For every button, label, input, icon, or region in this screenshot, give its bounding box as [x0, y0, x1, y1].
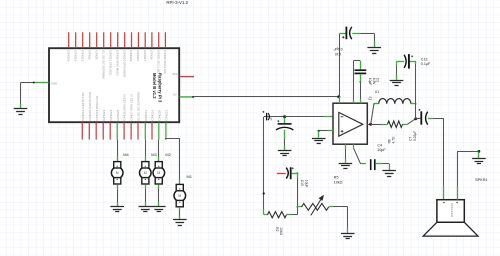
svg-text:GPIO14 UART0 TXD: GPIO14 UART0 TXD — [81, 92, 85, 121]
wire M1 to ground — [179, 207, 181, 219]
wire op-amp bottom pin gnd — [345, 144, 347, 163]
svg-text:10µF: 10µF — [377, 148, 386, 152]
svg-text:M: M — [178, 194, 181, 198]
svg-text:C10: C10 — [335, 52, 342, 56]
RPi pin 5V — [173, 93, 193, 97]
wire 5V net — [192, 96, 339, 98]
ground speaker — [472, 159, 486, 164]
junction input node — [283, 115, 286, 118]
svg-text:GPIO15 UART0 RXD: GPIO15 UART0 RXD — [88, 91, 92, 120]
wire op-amp bottom pin to C4 — [353, 144, 365, 164]
RPi top pin ID_SD I2C EEPROM — [101, 32, 105, 79]
label C15 10uF — [300, 180, 308, 188]
svg-text:3V3: 3V3 — [172, 72, 178, 76]
svg-text:R5: R5 — [334, 176, 339, 180]
RPi bottom pin GPIO18 PCM CLK — [95, 96, 99, 140]
svg-text:R2: R2 — [275, 227, 279, 231]
label L3 — [369, 96, 373, 100]
wire input node horizontal — [264, 116, 285, 118]
RPi bottom pin GPIO25 — [116, 109, 120, 139]
RPi bottom pin ID_SC I2C EEPROM — [137, 92, 141, 140]
wire RPi to M3 — [145, 140, 147, 162]
svg-text:M: M — [157, 171, 160, 175]
label R6 4.7ohm — [387, 136, 395, 143]
wire RPi to M2 — [158, 140, 160, 162]
ground M2 — [152, 207, 166, 212]
capacitor C7 — [416, 109, 433, 125]
svg-text:GPIO18 PCM CLK: GPIO18 PCM CLK — [95, 96, 99, 121]
ground C4 — [382, 171, 396, 177]
RPi bottom pin GPIO7 SPI0 CE1 N — [130, 94, 134, 139]
svg-text:GPIO21: GPIO21 — [165, 109, 169, 120]
capacitor C? input to ground — [276, 118, 293, 151]
RPi bottom pin GPIO14 UART0 TXD — [81, 92, 85, 140]
ground C10 — [367, 48, 381, 54]
svg-text:GPIO27: GPIO27 — [136, 50, 140, 61]
svg-text:GPIO5: GPIO5 — [94, 50, 98, 60]
wire op-amp output — [367, 124, 370, 126]
RPi bottom pin GPIO24 — [109, 109, 113, 139]
svg-text:M4: M4 — [123, 152, 129, 157]
svg-text:0.22µF: 0.22µF — [413, 131, 417, 141]
svg-text:C15: C15 — [300, 180, 304, 186]
svg-text:µF: µF — [269, 117, 273, 121]
motor M1 — [174, 184, 186, 206]
wire op-amp plus input to ground — [318, 130, 334, 138]
Raspberry Pi U2 body — [49, 48, 179, 122]
RPi top pin GPIO11 SPI0 SCK — [108, 32, 112, 75]
ground M3 — [139, 207, 153, 212]
RPi top pin GPIO13 — [80, 32, 84, 61]
svg-text:M: M — [116, 171, 119, 175]
resistor R6 — [371, 119, 416, 128]
ground op-amp pin — [339, 164, 353, 169]
svg-text:GPIO11 SPI0 SCK: GPIO11 SPI0 SCK — [108, 50, 112, 75]
svg-text:C12: C12 — [421, 57, 428, 61]
svg-text:10µF: 10µF — [368, 78, 372, 85]
svg-text:0.1µF: 0.1µF — [421, 62, 431, 66]
wire pot to ground — [333, 207, 348, 234]
svg-text:M1: M1 — [187, 174, 192, 179]
RPi bottom pin GPIO21 — [165, 109, 169, 139]
RPi top pin GPIO27 — [136, 32, 140, 61]
capacitor C4 — [371, 159, 390, 170]
wire 5V up to C10 — [339, 34, 346, 97]
svg-text:0.1µF: 0.1µF — [333, 47, 343, 51]
svg-text:ID_SC I2C EEPROM: ID_SC I2C EEPROM — [137, 92, 141, 121]
junction 5V node — [337, 95, 340, 98]
label C7 0.22uF — [409, 131, 417, 141]
svg-text:GPIO10 SPI0 MOSI: GPIO10 SPI0 MOSI — [122, 50, 126, 77]
RPi top pin GPIO5 — [94, 32, 98, 60]
wire RPi to M4 — [117, 140, 119, 162]
wire L3 right — [373, 103, 416, 105]
wire GND to ground — [21, 82, 35, 109]
RPi top pin GPIO6 — [87, 32, 91, 60]
junction Zobel node — [414, 117, 417, 120]
svg-text:M: M — [144, 171, 147, 175]
svg-text:GPIO24: GPIO24 — [109, 109, 113, 120]
wire C7 to speaker — [433, 118, 444, 199]
wire node up to C12 — [415, 61, 417, 119]
wire C12 to ground — [396, 61, 398, 80]
RPi bottom pin GPIO16 — [151, 109, 155, 139]
RPi pin 3V3 — [172, 72, 194, 77]
capacitor C10 — [342, 27, 374, 40]
speaker SPKR1 body — [437, 200, 464, 223]
potentiometer R5 — [297, 195, 333, 216]
wire M2 to ground — [158, 184, 160, 206]
wire down to ground — [478, 151, 480, 158]
svg-text:GPIO19: GPIO19 — [73, 50, 77, 61]
svg-text:RPI-3-V1.2: RPI-3-V1.2 — [166, 0, 188, 5]
ground input cap — [278, 151, 292, 156]
junction output node — [369, 123, 372, 126]
wire speaker right to ground — [457, 151, 479, 199]
wire M4 to ground — [117, 184, 119, 206]
svg-text:M2: M2 — [165, 152, 170, 157]
label R2 10k — [275, 227, 283, 235]
svg-text:GPIO13: GPIO13 — [80, 50, 84, 61]
capacitor C15 — [277, 167, 298, 179]
RPi bottom pin GPIO8 SPI0 CE0 N — [123, 94, 127, 139]
svg-text:5V: 5V — [173, 93, 177, 97]
wire C15 down to pot — [296, 172, 298, 214]
motor M2 — [153, 162, 165, 184]
ground op-amp plus — [312, 139, 326, 144]
RPi bottom pin GPIO15 UART0 RXD — [88, 91, 92, 139]
svg-text:GPIO9 SPI0 MISO: GPIO9 SPI0 MISO — [115, 50, 119, 76]
svg-text:M3: M3 — [151, 152, 156, 157]
svg-text:GPIO17: GPIO17 — [143, 50, 147, 61]
svg-text:L3: L3 — [369, 96, 373, 100]
motor M4 — [111, 162, 123, 184]
ground M4 — [110, 207, 124, 212]
junction on left net — [263, 192, 265, 194]
wire C10 to ground — [374, 34, 376, 48]
wire left vertical net — [263, 117, 265, 215]
RPi top pin GPIO17 — [143, 32, 147, 61]
ground RPi GND — [14, 109, 28, 115]
motor M3 — [140, 162, 152, 184]
RPi top pin GPIO22 — [129, 32, 133, 61]
capacitor C3 — [355, 61, 367, 103]
wire M3 to ground — [145, 184, 147, 206]
svg-text:U1: U1 — [375, 90, 379, 94]
svg-text:10µF: 10µF — [304, 180, 308, 188]
svg-text:GPIO16: GPIO16 — [151, 109, 155, 120]
resistor R2 — [264, 212, 298, 218]
svg-text:GPIO22: GPIO22 — [129, 50, 133, 61]
svg-text:GND: GND — [51, 81, 59, 85]
svg-text:GPIO8 SPI0 CE0 N: GPIO8 SPI0 CE0 N — [123, 94, 127, 120]
inductor L3 — [379, 99, 411, 104]
speaker cone — [423, 222, 478, 236]
RPi bottom pin GPIO20 — [157, 109, 161, 139]
RPi top pin GPIO9 SPI0 MISO — [115, 32, 119, 76]
svg-text:GPIO25: GPIO25 — [116, 109, 120, 120]
RPi title text — [152, 73, 162, 103]
ground M1 — [173, 220, 187, 226]
svg-text:SPEAKER: SPEAKER — [450, 203, 454, 218]
RPi top pin GPIO4 — [150, 32, 154, 60]
svg-text:GPIO7 SPI0 CE1 N: GPIO7 SPI0 CE1 N — [130, 94, 134, 120]
ground pot — [341, 234, 355, 239]
RPi bottom pin GPIO12 — [144, 109, 148, 139]
RPi top pin GPIO10 SPI0 MOSI — [122, 32, 126, 77]
wire RPi to M1 — [166, 139, 180, 185]
svg-text:C4: C4 — [377, 143, 382, 147]
svg-text:GPIO4: GPIO4 — [150, 50, 154, 60]
RPi top pin GPIO2 SDA1 I2C — [163, 32, 167, 74]
wire to op-amp minus input — [285, 116, 333, 118]
capacitor C12 — [397, 54, 416, 69]
svg-text:GPIO23: GPIO23 — [102, 109, 106, 120]
svg-text:GPIO12: GPIO12 — [144, 109, 148, 120]
svg-text:10kΩ: 10kΩ — [334, 180, 343, 184]
RPi top pin GPIO3 SCL1 I2C — [156, 32, 160, 74]
wire output to L3 — [371, 104, 379, 125]
junction speaker gnd node — [478, 150, 481, 153]
svg-text:GPIO20: GPIO20 — [157, 109, 161, 120]
RPi top pin GPIO19 — [73, 32, 77, 61]
RPi pin GND — [34, 81, 58, 85]
wire op-amp top pin bypass — [353, 61, 360, 104]
svg-text:Raspberry Pi 3Model B v1.2: Raspberry Pi 3Model B v1.2 — [152, 73, 162, 103]
svg-text:4.7Ω: 4.7Ω — [392, 136, 396, 143]
svg-text:ID_SD I2C EEPROM: ID_SD I2C EEPROM — [101, 50, 105, 79]
svg-text:GPIO6: GPIO6 — [87, 50, 91, 60]
ground C12 — [390, 81, 404, 86]
svg-text:SPKR1: SPKR1 — [475, 178, 487, 182]
svg-text:10kΩ: 10kΩ — [279, 227, 283, 235]
svg-text:GPIO3 SCL1 I2C: GPIO3 SCL1 I2C — [156, 50, 160, 74]
op-amp U1 body — [333, 97, 370, 144]
wire op-amp top pin V+ — [339, 97, 341, 103]
label C10 0.1uF — [333, 47, 343, 56]
svg-text:GPIO2 SDA1 I2C: GPIO2 SDA1 I2C — [163, 50, 167, 74]
RPi top pin GPIO26 — [66, 32, 70, 61]
capacitor C14 small series — [262, 111, 273, 121]
label C3 6.3V 10uF — [368, 78, 380, 85]
RPi bottom pin GPIO23 — [102, 109, 106, 139]
svg-text:GPIO26: GPIO26 — [66, 50, 70, 61]
